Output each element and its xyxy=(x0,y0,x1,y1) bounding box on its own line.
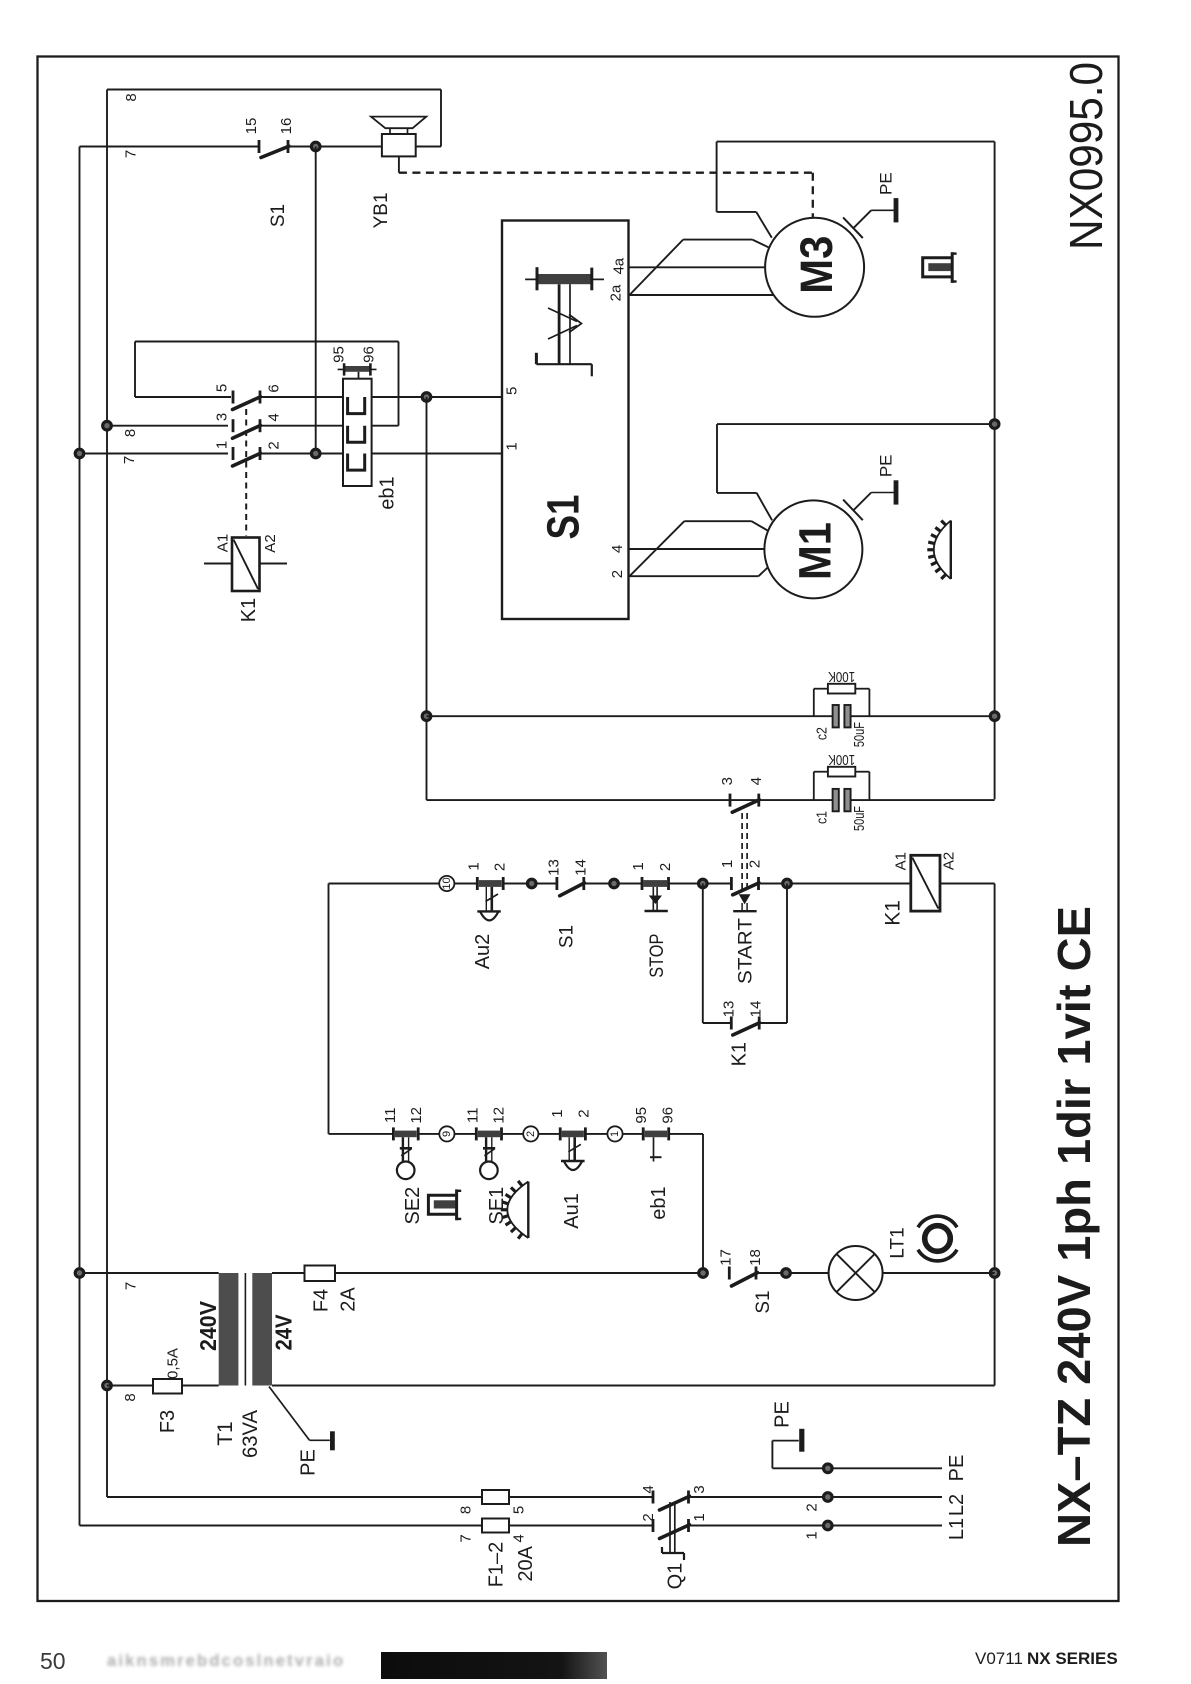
svg-text:V0711: V0711 xyxy=(975,1649,1023,1668)
svg-text:c1: c1 xyxy=(814,811,831,824)
svg-text:0,5A: 0,5A xyxy=(165,1348,182,1379)
svg-text:4: 4 xyxy=(511,1534,528,1542)
svg-text:15: 15 xyxy=(243,118,260,135)
svg-text:2: 2 xyxy=(266,441,283,449)
svg-text:100K: 100K xyxy=(828,751,855,768)
svg-text:2: 2 xyxy=(609,570,626,578)
svg-text:50uF: 50uF xyxy=(851,806,868,831)
svg-text:1: 1 xyxy=(609,1131,621,1137)
svg-text:63VA: 63VA xyxy=(239,1410,262,1458)
svg-text:4: 4 xyxy=(640,1485,657,1493)
svg-text:A1: A1 xyxy=(892,852,909,870)
svg-text:1: 1 xyxy=(549,1109,566,1117)
svg-text:1: 1 xyxy=(465,862,482,870)
svg-text:PE: PE xyxy=(876,454,895,477)
svg-text:START: START xyxy=(736,918,757,984)
svg-text:12: 12 xyxy=(491,1107,508,1124)
svg-text:4: 4 xyxy=(266,413,283,421)
svg-text:Au1: Au1 xyxy=(561,1193,583,1229)
svg-text:1: 1 xyxy=(630,862,647,870)
svg-text:2: 2 xyxy=(640,1513,657,1521)
svg-text:2: 2 xyxy=(492,863,509,871)
svg-text:STOP: STOP xyxy=(647,934,668,978)
svg-text:11: 11 xyxy=(382,1108,399,1124)
svg-text:14: 14 xyxy=(573,859,590,876)
svg-text:NX SERIES: NX SERIES xyxy=(1027,1649,1118,1668)
svg-text:3: 3 xyxy=(214,413,231,421)
svg-text:6: 6 xyxy=(266,384,283,392)
svg-text:Au2: Au2 xyxy=(472,934,494,970)
svg-text:eb1: eb1 xyxy=(648,1186,670,1219)
svg-text:7: 7 xyxy=(121,456,138,464)
svg-text:2: 2 xyxy=(747,860,764,868)
svg-text:PE: PE xyxy=(946,1455,968,1482)
svg-text:PE: PE xyxy=(876,172,895,195)
svg-text:2: 2 xyxy=(804,1503,821,1511)
svg-text:c2: c2 xyxy=(814,727,831,740)
svg-text:9: 9 xyxy=(441,1131,453,1137)
svg-text:aiknsmrebdcoslnetvraio: aiknsmrebdcoslnetvraio xyxy=(107,1652,345,1670)
svg-text:3: 3 xyxy=(691,1485,708,1493)
svg-text:A1: A1 xyxy=(215,534,232,552)
svg-text:F3: F3 xyxy=(157,1410,179,1433)
svg-text:Q1: Q1 xyxy=(665,1563,687,1590)
svg-text:10: 10 xyxy=(441,877,453,889)
svg-text:A2: A2 xyxy=(262,534,279,552)
svg-text:2: 2 xyxy=(657,863,674,871)
svg-text:14: 14 xyxy=(747,1001,764,1018)
svg-text:K1: K1 xyxy=(882,900,905,926)
svg-text:4: 4 xyxy=(609,545,626,553)
svg-text:A2: A2 xyxy=(940,852,957,870)
svg-text:1: 1 xyxy=(719,860,736,868)
svg-text:96: 96 xyxy=(361,346,378,363)
svg-text:24V: 24V xyxy=(271,1314,297,1351)
svg-text:2: 2 xyxy=(525,1131,537,1137)
svg-text:K1: K1 xyxy=(729,1042,751,1066)
svg-text:S1: S1 xyxy=(538,495,589,540)
svg-text:4: 4 xyxy=(748,777,765,785)
svg-text:3: 3 xyxy=(719,777,736,785)
svg-text:13: 13 xyxy=(720,1001,737,1018)
svg-text:5: 5 xyxy=(504,387,521,395)
svg-text:K1: K1 xyxy=(238,598,260,622)
svg-text:5: 5 xyxy=(511,1506,528,1514)
svg-text:NX0995.0: NX0995.0 xyxy=(1060,62,1112,250)
svg-text:L1: L1 xyxy=(946,1518,968,1540)
svg-text:PE: PE xyxy=(772,1401,794,1428)
svg-text:1: 1 xyxy=(691,1513,708,1521)
svg-text:12: 12 xyxy=(408,1107,425,1124)
svg-text:18: 18 xyxy=(747,1249,764,1266)
svg-text:7: 7 xyxy=(123,150,140,158)
svg-text:8: 8 xyxy=(123,93,140,101)
svg-text:17: 17 xyxy=(718,1249,735,1266)
svg-text:13: 13 xyxy=(546,859,563,876)
svg-text:7: 7 xyxy=(458,1534,475,1542)
svg-text:SE2: SE2 xyxy=(402,1187,424,1225)
svg-text:2: 2 xyxy=(576,1109,593,1117)
svg-text:PE: PE xyxy=(298,1449,320,1476)
svg-text:1: 1 xyxy=(804,1531,821,1539)
svg-text:16: 16 xyxy=(278,118,295,135)
svg-text:4a: 4a xyxy=(611,257,628,274)
svg-text:240V: 240V xyxy=(195,1300,221,1351)
svg-text:S1: S1 xyxy=(753,1290,774,1313)
svg-text:95: 95 xyxy=(633,1107,650,1124)
svg-text:7: 7 xyxy=(123,1282,140,1290)
svg-text:M1: M1 xyxy=(790,522,841,580)
svg-text:8: 8 xyxy=(122,429,139,437)
svg-text:2a: 2a xyxy=(608,284,625,301)
svg-text:M3: M3 xyxy=(791,236,842,294)
svg-text:2A: 2A xyxy=(338,1287,360,1312)
svg-text:50uF: 50uF xyxy=(851,722,868,747)
svg-text:T1: T1 xyxy=(214,1421,237,1446)
svg-text:L2: L2 xyxy=(946,1494,968,1516)
svg-text:5: 5 xyxy=(214,384,231,392)
svg-text:8: 8 xyxy=(458,1506,475,1514)
svg-text:NX–TZ 240V 1ph 1dir 1vit CE: NX–TZ 240V 1ph 1dir 1vit CE xyxy=(1048,906,1100,1547)
svg-text:11: 11 xyxy=(465,1108,482,1124)
svg-text:F4: F4 xyxy=(311,1289,333,1312)
svg-text:95: 95 xyxy=(331,346,348,363)
svg-text:SE1: SE1 xyxy=(486,1187,508,1225)
svg-text:96: 96 xyxy=(659,1107,676,1124)
svg-text:S1: S1 xyxy=(557,925,578,948)
svg-text:S1: S1 xyxy=(268,204,289,227)
svg-text:YB1: YB1 xyxy=(371,192,392,228)
svg-text:1: 1 xyxy=(214,441,231,449)
svg-text:50: 50 xyxy=(40,1648,66,1674)
svg-text:8: 8 xyxy=(122,1393,139,1401)
svg-text:1: 1 xyxy=(504,442,521,450)
svg-text:eb1: eb1 xyxy=(377,476,399,509)
svg-text:F1–2: F1–2 xyxy=(486,1542,508,1588)
svg-text:LT1: LT1 xyxy=(888,1227,909,1258)
svg-text:100K: 100K xyxy=(828,668,855,685)
svg-text:20A: 20A xyxy=(515,1545,537,1581)
